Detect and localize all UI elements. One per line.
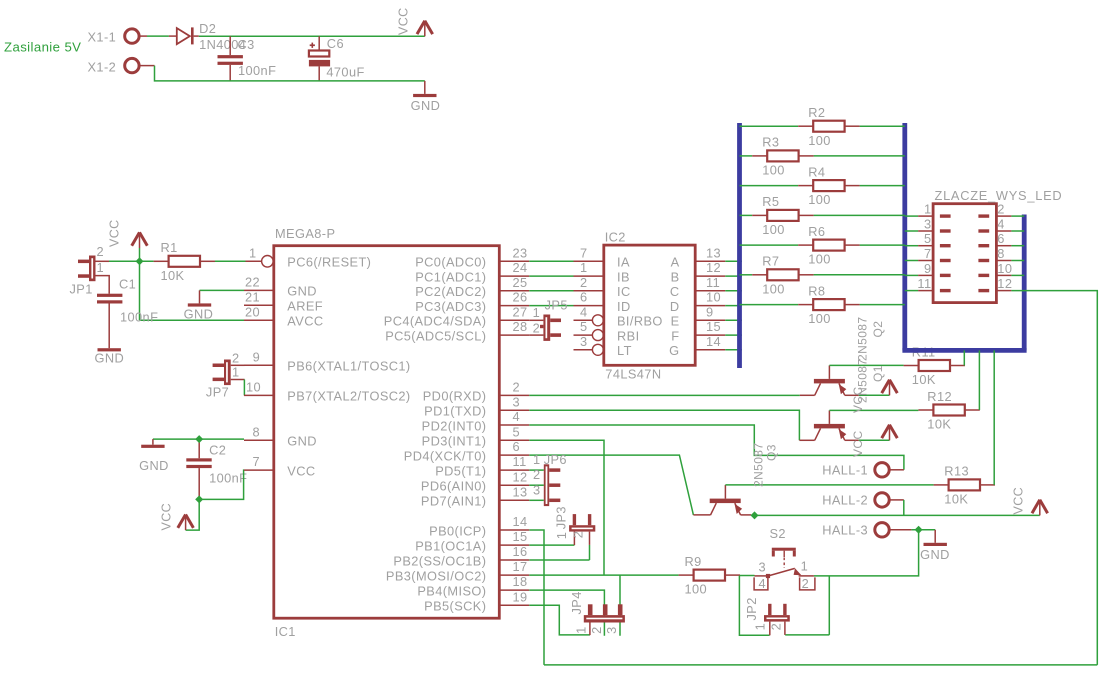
svg-text:15: 15: [706, 319, 721, 334]
svg-text:23: 23: [513, 245, 528, 260]
svg-text:PB6(XTAL1/TOSC1): PB6(XTAL1/TOSC1): [287, 359, 410, 374]
svg-text:2: 2: [513, 380, 521, 395]
svg-text:PD0(RXD): PD0(RXD): [423, 389, 487, 404]
svg-text:R7: R7: [762, 254, 779, 269]
svg-text:19: 19: [513, 589, 528, 604]
svg-text:PB0(ICP): PB0(ICP): [429, 523, 486, 538]
svg-text:22: 22: [245, 275, 260, 290]
svg-text:4: 4: [758, 576, 766, 591]
svg-text:R5: R5: [762, 194, 779, 209]
svg-text:5: 5: [924, 231, 932, 246]
svg-text:3: 3: [924, 216, 932, 231]
svg-text:1: 1: [97, 260, 105, 275]
svg-text:GND: GND: [287, 434, 317, 449]
svg-text:R4: R4: [808, 164, 825, 179]
svg-text:GND: GND: [184, 307, 214, 322]
svg-text:2: 2: [580, 275, 588, 290]
svg-text:27: 27: [513, 304, 528, 319]
svg-text:11: 11: [513, 454, 527, 469]
svg-text:3: 3: [533, 482, 541, 497]
svg-text:C1: C1: [119, 277, 136, 292]
svg-text:2: 2: [97, 244, 105, 259]
svg-text:14: 14: [706, 334, 721, 349]
svg-text:3: 3: [580, 334, 588, 349]
svg-text:21: 21: [245, 289, 260, 304]
svg-text:PD3(INT1): PD3(INT1): [422, 434, 487, 449]
svg-text:PB7(XTAL2/TOSC2): PB7(XTAL2/TOSC2): [287, 389, 410, 404]
svg-text:16: 16: [513, 544, 528, 559]
svg-text:VCC: VCC: [287, 463, 315, 478]
svg-text:1: 1: [753, 623, 768, 631]
svg-text:GND: GND: [920, 547, 950, 562]
svg-text:2: 2: [589, 626, 604, 634]
svg-text:24: 24: [513, 260, 528, 275]
svg-text:12: 12: [997, 276, 1012, 291]
svg-text:1: 1: [232, 365, 240, 380]
svg-text:IC2: IC2: [605, 230, 626, 245]
svg-text:4: 4: [513, 409, 521, 424]
svg-text:3: 3: [758, 560, 766, 575]
svg-text:10: 10: [706, 290, 721, 305]
svg-text:100: 100: [762, 163, 785, 178]
svg-text:VCC: VCC: [851, 430, 865, 457]
svg-text:2N5087: 2N5087: [856, 317, 870, 361]
svg-text:17: 17: [513, 559, 528, 574]
svg-text:20: 20: [245, 304, 260, 319]
svg-text:B: B: [671, 269, 680, 284]
svg-text:C3: C3: [238, 37, 255, 52]
svg-text:10K: 10K: [161, 268, 185, 283]
svg-text:PD1(TXD): PD1(TXD): [424, 404, 486, 419]
svg-text:JP4: JP4: [569, 591, 584, 614]
svg-text:7: 7: [924, 246, 932, 261]
svg-text:PC0(ADC0): PC0(ADC0): [415, 255, 486, 270]
svg-text:PD4(XCK/T0): PD4(XCK/T0): [404, 448, 487, 463]
svg-text:PC2(ADC2): PC2(ADC2): [415, 284, 486, 299]
svg-text:JP1: JP1: [70, 282, 93, 297]
svg-text:BI/RBO: BI/RBO: [617, 314, 663, 329]
svg-text:HALL-1: HALL-1: [822, 462, 868, 477]
svg-text:1: 1: [554, 532, 569, 540]
svg-text:2: 2: [997, 202, 1005, 217]
svg-text:JP2: JP2: [744, 597, 759, 620]
svg-text:GND: GND: [287, 284, 317, 299]
svg-text:9: 9: [253, 350, 261, 365]
svg-text:R12: R12: [927, 389, 952, 404]
svg-text:1: 1: [249, 245, 257, 260]
svg-text:100nF: 100nF: [238, 63, 276, 78]
svg-text:GND: GND: [94, 351, 124, 366]
svg-text:100: 100: [762, 222, 785, 237]
svg-text:Q3: Q3: [765, 444, 779, 461]
svg-text:100nF: 100nF: [209, 471, 247, 486]
svg-text:PD2(INT0): PD2(INT0): [422, 418, 487, 433]
svg-text:PC4(ADC4/SDA): PC4(ADC4/SDA): [384, 314, 487, 329]
svg-text:2N5087: 2N5087: [752, 443, 766, 487]
svg-text:3: 3: [513, 394, 521, 409]
svg-text:2: 2: [533, 320, 541, 335]
svg-text:AVCC: AVCC: [287, 314, 323, 329]
svg-text:PB3(MOSI/OC2): PB3(MOSI/OC2): [386, 568, 486, 583]
svg-text:7: 7: [580, 245, 588, 260]
svg-text:PC1(ADC1): PC1(ADC1): [415, 269, 486, 284]
svg-text:100: 100: [808, 133, 831, 148]
svg-text:100: 100: [762, 281, 785, 296]
svg-text:S2: S2: [770, 526, 786, 541]
svg-text:1: 1: [533, 452, 541, 467]
svg-text:15: 15: [513, 529, 528, 544]
svg-text:GND: GND: [411, 98, 441, 113]
svg-text:1: 1: [801, 559, 809, 574]
svg-text:VCC: VCC: [397, 7, 411, 35]
svg-text:18: 18: [513, 574, 528, 589]
svg-text:100: 100: [808, 192, 831, 207]
svg-text:100: 100: [808, 311, 831, 326]
svg-text:IA: IA: [617, 255, 630, 270]
svg-text:13: 13: [706, 245, 721, 260]
svg-text:R3: R3: [762, 135, 779, 150]
svg-text:R13: R13: [944, 464, 969, 479]
svg-text:7: 7: [252, 454, 260, 469]
svg-text:C6: C6: [327, 36, 344, 51]
svg-text:VCC: VCC: [160, 503, 174, 531]
svg-text:1: 1: [574, 626, 589, 634]
svg-text:8: 8: [252, 424, 260, 439]
svg-text:14: 14: [513, 514, 528, 529]
svg-text:100nF: 100nF: [120, 310, 158, 325]
svg-text:2: 2: [533, 467, 541, 482]
svg-text:8: 8: [997, 246, 1005, 261]
svg-text:1: 1: [580, 260, 588, 275]
svg-text:3: 3: [604, 626, 619, 634]
svg-text:JP7: JP7: [206, 385, 229, 400]
svg-text:X1-1: X1-1: [88, 30, 117, 45]
svg-text:E: E: [671, 314, 680, 329]
svg-text:5: 5: [580, 319, 588, 334]
svg-text:R9: R9: [685, 554, 702, 569]
svg-text:PB1(OC1A): PB1(OC1A): [415, 538, 486, 553]
svg-text:10K: 10K: [912, 372, 936, 387]
svg-text:IB: IB: [617, 269, 630, 284]
svg-text:PB2(SS/OC1B): PB2(SS/OC1B): [393, 553, 486, 568]
svg-text:12: 12: [513, 469, 528, 484]
svg-text:PD5(T1): PD5(T1): [435, 463, 486, 478]
svg-text:A: A: [671, 255, 680, 270]
svg-text:10K: 10K: [944, 492, 968, 507]
svg-text:13: 13: [513, 484, 528, 499]
svg-text:VCC: VCC: [851, 386, 865, 413]
svg-text:10: 10: [246, 380, 261, 395]
svg-text:X1-2: X1-2: [88, 59, 117, 74]
svg-text:VCC: VCC: [108, 219, 122, 247]
svg-text:6: 6: [580, 290, 588, 305]
svg-text:JP6: JP6: [544, 452, 567, 467]
svg-text:PD7(AIN1): PD7(AIN1): [421, 494, 486, 509]
svg-text:2: 2: [802, 576, 810, 591]
svg-text:C: C: [670, 284, 680, 299]
svg-text:12: 12: [706, 260, 721, 275]
svg-text:11: 11: [917, 276, 931, 291]
svg-text:F: F: [671, 328, 679, 343]
svg-text:D: D: [670, 299, 680, 314]
svg-text:26: 26: [513, 290, 528, 305]
svg-text:470uF: 470uF: [326, 65, 364, 80]
svg-text:PD6(AIN0): PD6(AIN0): [421, 479, 486, 494]
svg-text:2: 2: [571, 531, 586, 539]
svg-text:AREF: AREF: [287, 299, 323, 314]
svg-text:28: 28: [513, 319, 528, 334]
svg-text:R2: R2: [808, 105, 825, 120]
svg-text:9: 9: [706, 304, 714, 319]
svg-text:HALL-2: HALL-2: [822, 493, 868, 508]
svg-text:100: 100: [808, 252, 831, 267]
svg-text:9: 9: [924, 261, 932, 276]
svg-text:PC6(/RESET): PC6(/RESET): [287, 255, 371, 270]
svg-text:4: 4: [997, 216, 1005, 231]
svg-text:G: G: [669, 343, 679, 358]
svg-text:IC1: IC1: [275, 624, 296, 639]
svg-text:IC: IC: [617, 284, 631, 299]
svg-text:R1: R1: [161, 240, 178, 255]
svg-text:11: 11: [706, 275, 720, 290]
svg-text:PB4(MISO): PB4(MISO): [417, 583, 486, 598]
svg-text:LT: LT: [617, 343, 632, 358]
svg-text:6: 6: [513, 439, 521, 454]
svg-text:JP3: JP3: [554, 506, 569, 529]
svg-text:ID: ID: [617, 299, 631, 314]
svg-text:PB5(SCK): PB5(SCK): [424, 599, 486, 614]
svg-text:PC3(ADC3): PC3(ADC3): [415, 299, 486, 314]
svg-text:D2: D2: [199, 21, 216, 36]
svg-text:VCC: VCC: [1012, 487, 1026, 515]
svg-text:2: 2: [769, 623, 784, 631]
svg-text:6: 6: [997, 231, 1005, 246]
svg-text:Q1: Q1: [871, 365, 885, 382]
svg-text:Q2: Q2: [871, 321, 885, 338]
svg-text:1: 1: [533, 305, 541, 320]
svg-text:Zasilanie 5V: Zasilanie 5V: [4, 40, 81, 55]
svg-text:100: 100: [685, 582, 708, 597]
svg-text:74LS47N: 74LS47N: [605, 367, 661, 382]
svg-text:2: 2: [232, 350, 240, 365]
svg-text:GND: GND: [139, 458, 169, 473]
svg-text:PC5(ADC5/SCL): PC5(ADC5/SCL): [385, 328, 486, 343]
svg-text:JP5: JP5: [545, 298, 568, 313]
svg-text:C2: C2: [209, 443, 226, 458]
svg-text:HALL-3: HALL-3: [822, 522, 868, 537]
svg-text:MEGA8-P: MEGA8-P: [275, 226, 335, 241]
svg-text:10K: 10K: [927, 417, 951, 432]
svg-text:5: 5: [513, 424, 521, 439]
svg-text:1: 1: [924, 202, 932, 217]
svg-text:10: 10: [997, 261, 1012, 276]
svg-text:R6: R6: [808, 224, 825, 239]
svg-text:RBI: RBI: [617, 328, 640, 343]
svg-text:R8: R8: [808, 283, 825, 298]
svg-text:25: 25: [513, 275, 528, 290]
svg-text:4: 4: [580, 304, 588, 319]
